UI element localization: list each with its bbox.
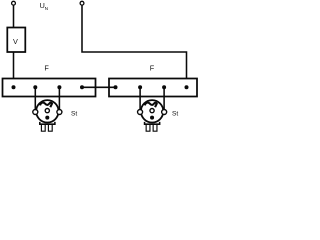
voltmeter V xyxy=(7,28,25,53)
svg-text:St: St xyxy=(71,111,77,118)
distribution strip F2 xyxy=(109,79,197,97)
svg-text:St: St xyxy=(172,111,178,118)
junction F1 node d xyxy=(80,85,84,89)
socket St1 with plug xyxy=(33,100,62,131)
junction F1 node a xyxy=(12,85,16,89)
junction F2 node b xyxy=(138,85,142,89)
terminal N (supply) xyxy=(80,1,84,5)
wire F2 to socket St2 pin L xyxy=(139,87,141,110)
junction F2 node a xyxy=(114,85,118,89)
wire F1 to socket St1 pin N xyxy=(58,87,60,110)
wire voltmeter V to strip F1 xyxy=(13,52,15,87)
wire terminal L to voltmeter V xyxy=(13,5,15,27)
socket St2 with plug xyxy=(138,100,167,131)
wire terminal N to strip F2 xyxy=(82,5,187,86)
junction F1 node c xyxy=(57,85,61,89)
junction F1 node b xyxy=(33,85,37,89)
distribution strip F1 xyxy=(3,79,96,97)
svg-text:F: F xyxy=(150,64,155,73)
wire F1 to socket St1 pin L xyxy=(34,87,36,110)
wire F2 to socket St2 pin N xyxy=(163,87,165,110)
wire strip F1 to strip F2 xyxy=(82,86,116,88)
svg-text:F: F xyxy=(44,63,49,72)
junction F2 node c xyxy=(162,85,166,89)
svg-text:N: N xyxy=(45,6,49,12)
terminal L (supply) xyxy=(12,1,16,5)
svg-text:V: V xyxy=(13,37,18,46)
junction F2 node d xyxy=(185,85,189,89)
